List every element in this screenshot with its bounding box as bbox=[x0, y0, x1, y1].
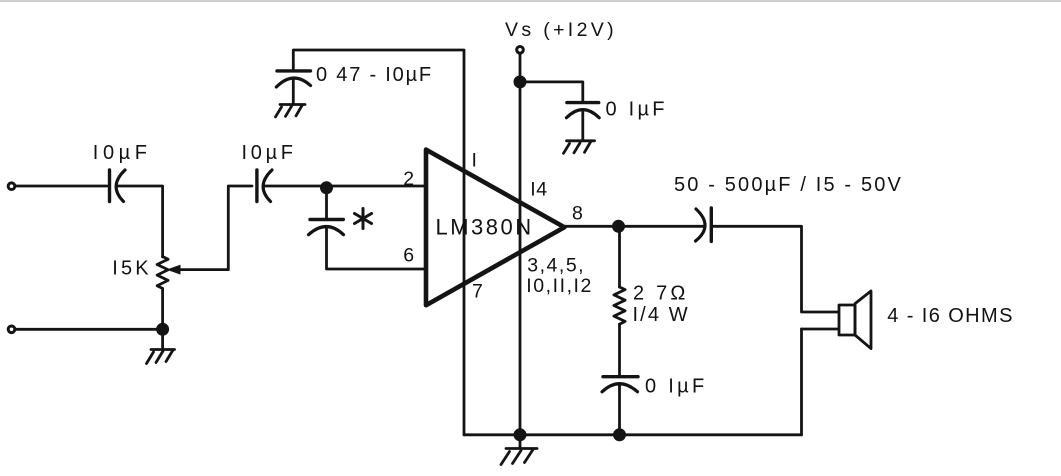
svg-text:7: 7 bbox=[472, 281, 483, 303]
svg-text:0 IµF: 0 IµF bbox=[606, 99, 668, 121]
svg-text:Vs (+I2V): Vs (+I2V) bbox=[505, 19, 617, 41]
svg-text:I0µF: I0µF bbox=[242, 142, 297, 164]
svg-text:4 - I6 OHMS: 4 - I6 OHMS bbox=[887, 305, 1014, 327]
svg-text:0 47 - I0µF: 0 47 - I0µF bbox=[316, 64, 433, 86]
svg-text:50 - 500µF / I5 - 50V: 50 - 500µF / I5 - 50V bbox=[674, 174, 903, 196]
svg-text:2: 2 bbox=[403, 168, 414, 190]
svg-text:8: 8 bbox=[572, 203, 583, 225]
svg-text:I0µF: I0µF bbox=[93, 142, 152, 164]
svg-text:0 IµF: 0 IµF bbox=[645, 376, 707, 398]
svg-text:LM380N: LM380N bbox=[436, 215, 534, 240]
svg-text:2 7Ω: 2 7Ω bbox=[633, 283, 689, 305]
svg-text:I4: I4 bbox=[530, 179, 547, 201]
svg-text:I/4 W: I/4 W bbox=[633, 304, 690, 326]
svg-text:6: 6 bbox=[403, 245, 414, 267]
svg-text:I5K: I5K bbox=[112, 258, 152, 280]
svg-text:I: I bbox=[472, 150, 478, 172]
svg-text:3,4,5,: 3,4,5, bbox=[527, 255, 585, 277]
svg-text:I0,II,I2: I0,II,I2 bbox=[526, 275, 593, 297]
